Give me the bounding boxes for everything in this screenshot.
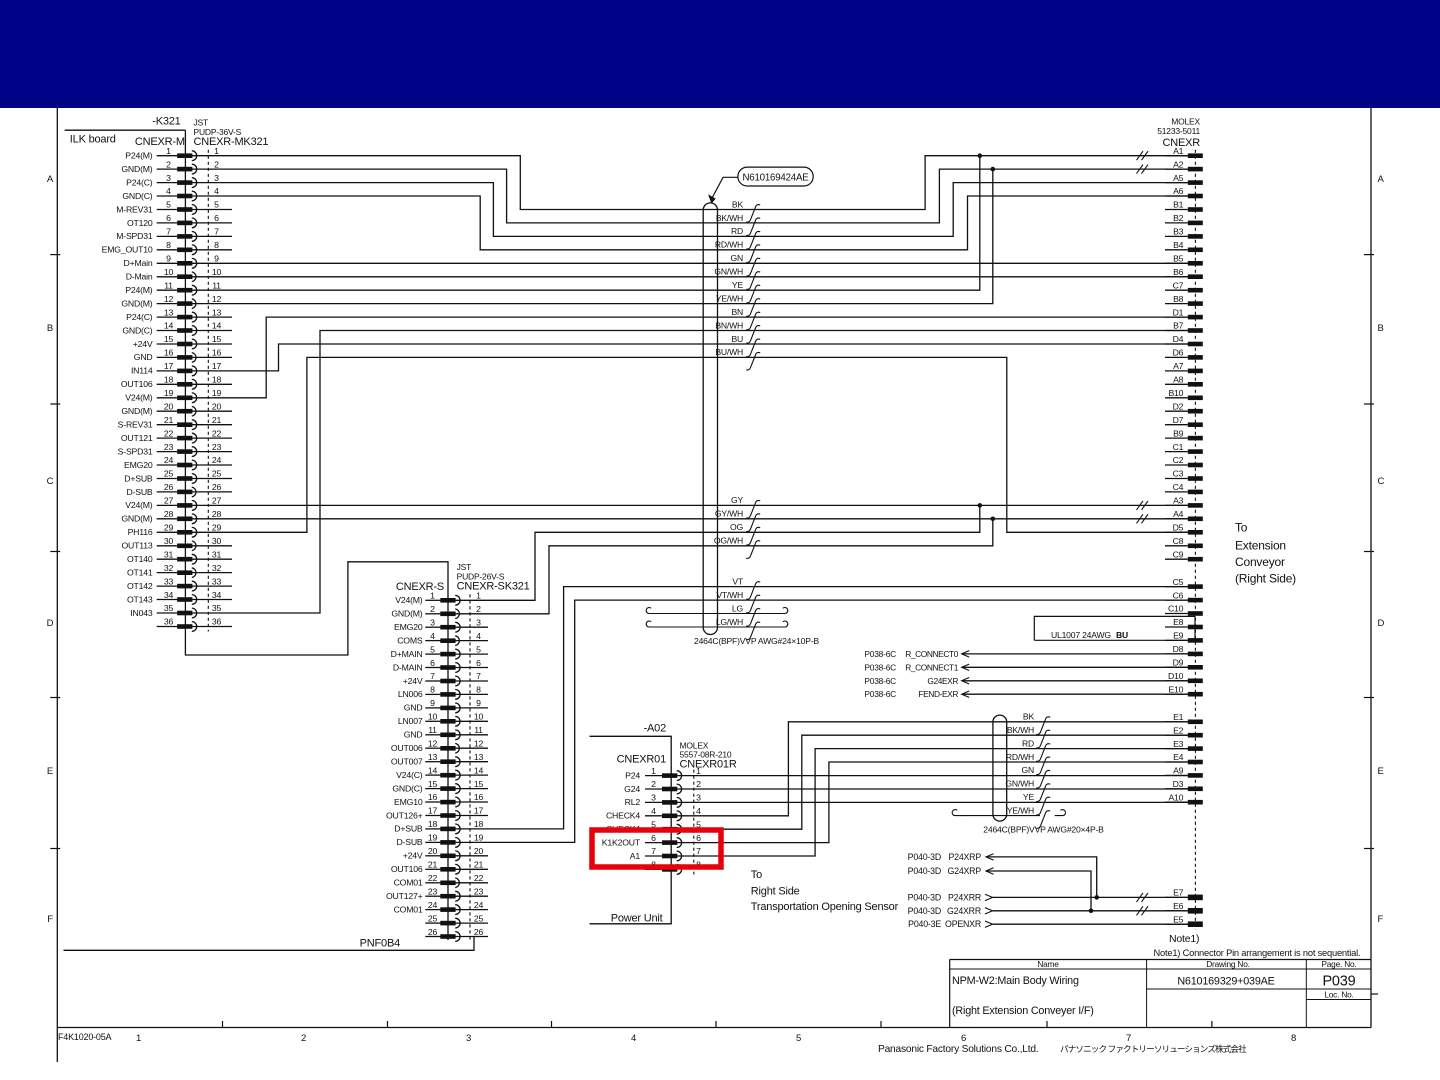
svg-text:Loc. No.: Loc. No. — [1324, 989, 1353, 999]
svg-text:33: 33 — [164, 576, 174, 586]
svg-text:E3: E3 — [1173, 739, 1184, 749]
svg-text:1: 1 — [136, 1033, 141, 1044]
svg-text:EMG20: EMG20 — [124, 460, 153, 470]
svg-text:C5: C5 — [1173, 577, 1184, 587]
svg-text:51233-5011: 51233-5011 — [1157, 126, 1200, 136]
svg-text:C: C — [1378, 476, 1385, 487]
svg-text:E6: E6 — [1173, 901, 1184, 911]
svg-text:6: 6 — [696, 833, 701, 843]
svg-text:OUT006: OUT006 — [391, 743, 423, 753]
svg-text:5: 5 — [476, 644, 481, 654]
svg-text:B8: B8 — [1173, 294, 1184, 304]
svg-text:CNEXR01R: CNEXR01R — [680, 758, 737, 770]
svg-text:B10: B10 — [1168, 388, 1183, 398]
svg-text:7: 7 — [1126, 1033, 1131, 1044]
svg-text:To: To — [751, 869, 762, 881]
svg-text:35: 35 — [212, 603, 222, 613]
svg-text:A2: A2 — [1173, 159, 1184, 169]
svg-text:A4: A4 — [1173, 509, 1184, 519]
svg-text:V24(C): V24(C) — [396, 770, 423, 780]
svg-text:D2: D2 — [1173, 401, 1184, 411]
svg-text:+24V: +24V — [133, 339, 153, 349]
svg-text:F: F — [1378, 914, 1384, 925]
svg-text:Note1): Note1) — [1169, 933, 1199, 945]
svg-text:GND(M): GND(M) — [121, 164, 152, 174]
svg-text:26: 26 — [428, 927, 438, 937]
svg-text:4: 4 — [214, 186, 219, 196]
svg-text:RD/WH: RD/WH — [715, 240, 743, 250]
svg-text:19: 19 — [428, 833, 438, 843]
svg-text:11: 11 — [474, 725, 483, 735]
svg-text:25: 25 — [474, 913, 484, 923]
svg-text:OUT126+: OUT126+ — [386, 810, 423, 820]
svg-text:1: 1 — [430, 591, 435, 601]
svg-text:OUT121: OUT121 — [121, 433, 153, 443]
svg-text:D: D — [47, 618, 54, 629]
svg-text:G24: G24 — [624, 784, 640, 794]
svg-text:22: 22 — [428, 873, 438, 883]
svg-text:A: A — [1378, 174, 1385, 185]
svg-text:C9: C9 — [1173, 549, 1184, 559]
svg-text:R_CONNECT1: R_CONNECT1 — [905, 662, 959, 672]
svg-text:4: 4 — [696, 806, 701, 816]
svg-text:D3: D3 — [1173, 779, 1184, 789]
svg-text:B3: B3 — [1173, 227, 1184, 237]
svg-text:GND: GND — [134, 352, 153, 362]
svg-text:E: E — [1378, 766, 1384, 777]
svg-text:パナソニック ファクトリーソリューションズ株式会社: パナソニック ファクトリーソリューションズ株式会社 — [1060, 1043, 1247, 1054]
svg-text:3: 3 — [476, 617, 481, 627]
svg-text:G24XRP: G24XRP — [947, 866, 981, 876]
svg-text:7: 7 — [166, 227, 171, 237]
svg-text:17: 17 — [212, 361, 222, 371]
svg-text:OT120: OT120 — [127, 218, 153, 228]
svg-text:15: 15 — [212, 334, 222, 344]
svg-text:C4: C4 — [1173, 482, 1184, 492]
svg-text:17: 17 — [164, 361, 174, 371]
svg-text:33: 33 — [212, 576, 222, 586]
svg-text:32: 32 — [212, 563, 222, 573]
svg-text:N610169424AE: N610169424AE — [742, 172, 809, 183]
svg-text:D+SUB: D+SUB — [394, 824, 423, 834]
svg-text:13: 13 — [164, 307, 174, 317]
svg-text:PH116: PH116 — [128, 527, 153, 537]
svg-text:E8: E8 — [1173, 617, 1184, 627]
svg-text:23: 23 — [474, 886, 484, 896]
svg-text:B2: B2 — [1173, 213, 1184, 223]
svg-text:Extension: Extension — [1235, 539, 1286, 553]
svg-text:26: 26 — [212, 482, 222, 492]
svg-text:31: 31 — [212, 549, 222, 559]
svg-text:25: 25 — [428, 913, 438, 923]
svg-text:18: 18 — [474, 819, 484, 829]
svg-text:OT140: OT140 — [127, 554, 153, 564]
svg-text:GY: GY — [731, 495, 743, 505]
svg-text:3: 3 — [430, 617, 435, 627]
svg-text:14: 14 — [474, 765, 484, 775]
svg-text:OUT106: OUT106 — [121, 379, 153, 389]
svg-text:OT143: OT143 — [127, 594, 153, 604]
svg-text:C6: C6 — [1173, 590, 1184, 600]
svg-text:+24V: +24V — [403, 851, 423, 861]
svg-text:2: 2 — [651, 779, 656, 789]
svg-text:8: 8 — [166, 240, 171, 250]
svg-text:CNEXR-S: CNEXR-S — [396, 581, 444, 593]
svg-text:P24: P24 — [625, 770, 640, 780]
svg-text:P24(M): P24(M) — [125, 285, 153, 295]
svg-text:17: 17 — [474, 806, 484, 816]
svg-text:BK: BK — [732, 199, 744, 209]
svg-text:2: 2 — [214, 159, 219, 169]
svg-text:14: 14 — [428, 765, 438, 775]
svg-text:A: A — [47, 174, 54, 185]
svg-text:26: 26 — [164, 482, 174, 492]
svg-text:Name: Name — [1037, 959, 1059, 969]
svg-text:FEND-EXR: FEND-EXR — [918, 689, 958, 699]
svg-text:E7: E7 — [1173, 888, 1184, 898]
svg-text:6: 6 — [961, 1033, 966, 1044]
svg-text:3: 3 — [214, 173, 219, 183]
svg-text:B5: B5 — [1173, 254, 1184, 264]
svg-text:16: 16 — [164, 348, 174, 358]
svg-text:7: 7 — [430, 671, 435, 681]
svg-text:GND(M): GND(M) — [391, 609, 422, 619]
svg-text:Note1) Connector Pin arrangeme: Note1) Connector Pin arrangement is not … — [1154, 948, 1361, 958]
svg-text:A8: A8 — [1173, 375, 1184, 385]
svg-text:5: 5 — [166, 200, 171, 210]
svg-text:C: C — [47, 476, 54, 487]
svg-text:G24EXR: G24EXR — [927, 676, 958, 686]
svg-text:G24XRR: G24XRR — [947, 906, 981, 916]
svg-text:23: 23 — [212, 442, 222, 452]
svg-text:25: 25 — [164, 469, 174, 479]
svg-text:1: 1 — [651, 766, 656, 776]
svg-text:D1: D1 — [1173, 307, 1184, 317]
svg-text:NPM-W2:Main Body Wiring: NPM-W2:Main Body Wiring — [952, 975, 1079, 987]
svg-text:23: 23 — [164, 442, 174, 452]
svg-text:4: 4 — [631, 1033, 636, 1044]
svg-text:B9: B9 — [1173, 428, 1184, 438]
svg-text:P038-6C: P038-6C — [864, 676, 896, 686]
svg-text:D-SUB: D-SUB — [126, 487, 152, 497]
svg-text:18: 18 — [428, 819, 438, 829]
svg-text:27: 27 — [164, 496, 174, 506]
svg-text:+24V: +24V — [403, 676, 423, 686]
svg-text:6: 6 — [430, 658, 435, 668]
svg-text:M-SPD31: M-SPD31 — [116, 231, 153, 241]
svg-text:1: 1 — [696, 766, 701, 776]
svg-text:P040-3D: P040-3D — [908, 906, 941, 916]
svg-text:31: 31 — [164, 549, 174, 559]
svg-text:18: 18 — [212, 375, 222, 385]
svg-text:GND(M): GND(M) — [121, 406, 152, 416]
svg-text:P040-3E: P040-3E — [908, 919, 941, 929]
svg-text:GN/WH: GN/WH — [714, 267, 743, 277]
svg-text:9: 9 — [430, 698, 435, 708]
svg-text:13: 13 — [428, 752, 438, 762]
svg-text:A10: A10 — [1168, 792, 1183, 802]
svg-text:B1: B1 — [1173, 200, 1184, 210]
svg-text:22: 22 — [474, 873, 484, 883]
svg-text:OUT127+: OUT127+ — [386, 891, 423, 901]
svg-text:11: 11 — [164, 280, 173, 290]
svg-text:RD: RD — [1022, 738, 1034, 748]
svg-text:21: 21 — [212, 415, 222, 425]
svg-text:5: 5 — [796, 1033, 801, 1044]
svg-text:2464C(BPF)VVP AWG#24×10P-B: 2464C(BPF)VVP AWG#24×10P-B — [694, 636, 819, 646]
svg-text:D10: D10 — [1168, 671, 1184, 681]
svg-text:12: 12 — [212, 294, 222, 304]
svg-text:P24(C): P24(C) — [126, 177, 153, 187]
svg-text:N610169329+039AE: N610169329+039AE — [1177, 976, 1274, 988]
svg-text:D+Main: D+Main — [124, 258, 153, 268]
svg-text:11: 11 — [212, 280, 221, 290]
svg-text:21: 21 — [474, 860, 484, 870]
svg-text:ILK board: ILK board — [70, 134, 116, 146]
svg-text:GND(M): GND(M) — [121, 514, 152, 524]
svg-text:GN: GN — [1022, 765, 1035, 775]
svg-text:1: 1 — [166, 146, 171, 156]
svg-text:26: 26 — [474, 927, 484, 937]
svg-text:LG: LG — [732, 603, 744, 613]
svg-text:12: 12 — [164, 294, 174, 304]
svg-text:15: 15 — [474, 779, 484, 789]
svg-text:9: 9 — [166, 254, 171, 264]
svg-text:29: 29 — [164, 523, 174, 533]
svg-text:2: 2 — [166, 159, 171, 169]
svg-text:15: 15 — [164, 334, 174, 344]
svg-text:B4: B4 — [1173, 240, 1184, 250]
svg-text:A3: A3 — [1173, 496, 1184, 506]
svg-text:OUT113: OUT113 — [122, 541, 153, 551]
svg-text:15: 15 — [428, 779, 438, 789]
svg-text:S-SPD31: S-SPD31 — [118, 446, 153, 456]
svg-text:2: 2 — [301, 1033, 306, 1044]
svg-text:11: 11 — [428, 725, 437, 735]
svg-text:7: 7 — [476, 671, 481, 681]
svg-text:GND(M): GND(M) — [121, 298, 152, 308]
svg-text:9: 9 — [476, 698, 481, 708]
svg-text:Panasonic Factory Solutions Co: Panasonic Factory Solutions Co.,Ltd. — [878, 1044, 1038, 1055]
svg-text:4: 4 — [430, 631, 435, 641]
svg-text:3: 3 — [651, 793, 656, 803]
svg-text:20: 20 — [212, 401, 222, 411]
svg-text:GN/WH: GN/WH — [1005, 779, 1034, 789]
svg-text:4: 4 — [651, 806, 656, 816]
svg-text:4: 4 — [166, 186, 171, 196]
svg-text:C1: C1 — [1173, 442, 1184, 452]
svg-text:8: 8 — [430, 685, 435, 695]
svg-text:2: 2 — [476, 604, 481, 614]
svg-text:CNEXR01: CNEXR01 — [617, 754, 666, 766]
svg-text:P24(C): P24(C) — [126, 312, 153, 322]
svg-text:COM01: COM01 — [394, 904, 423, 914]
svg-text:OUT007: OUT007 — [391, 757, 423, 767]
svg-text:YE/WH: YE/WH — [1007, 805, 1034, 815]
svg-text:32: 32 — [164, 563, 174, 573]
svg-text:E1: E1 — [1173, 712, 1184, 722]
svg-text:2: 2 — [430, 604, 435, 614]
svg-text:E2: E2 — [1173, 725, 1184, 735]
svg-text:28: 28 — [212, 509, 222, 519]
svg-text:GND: GND — [404, 703, 423, 713]
svg-text:A9: A9 — [1173, 766, 1184, 776]
svg-text:2464C(BPF)VVP AWG#20×4P-B: 2464C(BPF)VVP AWG#20×4P-B — [983, 824, 1104, 834]
svg-text:PNF0B4: PNF0B4 — [360, 938, 400, 950]
svg-text:BK/WH: BK/WH — [716, 213, 743, 223]
svg-text:14: 14 — [164, 321, 174, 331]
svg-text:27: 27 — [212, 496, 222, 506]
svg-text:COMS: COMS — [397, 635, 423, 645]
svg-text:D4: D4 — [1173, 334, 1184, 344]
svg-text:P040-3D: P040-3D — [908, 866, 941, 876]
svg-text:C3: C3 — [1173, 469, 1184, 479]
svg-text:A5: A5 — [1173, 173, 1184, 183]
svg-text:36: 36 — [164, 617, 174, 627]
svg-text:To: To — [1235, 521, 1248, 535]
svg-text:20: 20 — [428, 846, 438, 856]
svg-text:COM01: COM01 — [394, 878, 423, 888]
svg-text:P040-3D: P040-3D — [908, 852, 941, 862]
svg-text:10: 10 — [474, 712, 484, 722]
svg-text:22: 22 — [164, 428, 174, 438]
svg-text:D+MAIN: D+MAIN — [391, 649, 423, 659]
svg-text:E4: E4 — [1173, 752, 1184, 762]
svg-text:CNEXR-MK321: CNEXR-MK321 — [194, 136, 269, 148]
svg-text:Drawing No.: Drawing No. — [1206, 959, 1249, 969]
svg-text:D: D — [1378, 618, 1385, 629]
svg-text:10: 10 — [428, 712, 438, 722]
svg-text:K1K2OUT: K1K2OUT — [602, 837, 641, 847]
svg-text:P040-3D: P040-3D — [908, 892, 941, 902]
svg-text:A6: A6 — [1173, 186, 1184, 196]
svg-text:P038-6C: P038-6C — [864, 662, 896, 672]
svg-text:BN/WH: BN/WH — [715, 320, 743, 330]
svg-text:F4K1020-05A: F4K1020-05A — [58, 1032, 112, 1042]
svg-text:Right Side: Right Side — [751, 886, 800, 898]
svg-text:16: 16 — [428, 792, 438, 802]
svg-text:P24XRP: P24XRP — [948, 852, 981, 862]
svg-text:1: 1 — [476, 591, 481, 601]
svg-text:Transportation Opening Sensor: Transportation Opening Sensor — [751, 901, 899, 913]
svg-text:13: 13 — [212, 307, 222, 317]
svg-text:BK: BK — [1023, 712, 1035, 722]
svg-text:(Right Extension Conveyer I/F): (Right Extension Conveyer I/F) — [952, 1005, 1094, 1017]
svg-text:EMG20: EMG20 — [394, 622, 423, 632]
svg-text:1: 1 — [214, 146, 219, 156]
svg-text:LN006: LN006 — [398, 689, 423, 699]
svg-text:MOLEX: MOLEX — [1171, 117, 1200, 127]
svg-text:8: 8 — [214, 240, 219, 250]
svg-text:IN114: IN114 — [131, 366, 153, 376]
svg-text:20: 20 — [164, 401, 174, 411]
svg-text:D-SUB: D-SUB — [396, 837, 422, 847]
svg-text:GN: GN — [731, 253, 744, 263]
svg-text:2: 2 — [696, 779, 701, 789]
svg-text:C2: C2 — [1173, 455, 1184, 465]
svg-text:BU: BU — [731, 334, 743, 344]
svg-text:BU/WH: BU/WH — [715, 347, 743, 357]
svg-text:GY/WH: GY/WH — [715, 509, 743, 519]
svg-text:12: 12 — [474, 739, 484, 749]
svg-text:V24(M): V24(M) — [125, 500, 153, 510]
svg-text:12: 12 — [428, 739, 438, 749]
svg-text:RD: RD — [731, 226, 743, 236]
svg-text:17: 17 — [428, 806, 438, 816]
svg-text:21: 21 — [164, 415, 174, 425]
svg-text:B7: B7 — [1173, 321, 1184, 331]
svg-text:6: 6 — [166, 213, 171, 223]
svg-text:OUT106: OUT106 — [391, 864, 423, 874]
svg-text:IN043: IN043 — [130, 608, 153, 618]
svg-text:OT142: OT142 — [127, 581, 153, 591]
svg-text:34: 34 — [212, 590, 222, 600]
svg-text:24: 24 — [428, 900, 438, 910]
svg-text:13: 13 — [474, 752, 484, 762]
svg-text:YE: YE — [1023, 792, 1035, 802]
svg-text:8: 8 — [476, 685, 481, 695]
svg-text:D-MAIN: D-MAIN — [393, 662, 423, 672]
svg-text:GND(C): GND(C) — [392, 783, 422, 793]
svg-text:16: 16 — [212, 348, 222, 358]
svg-text:D8: D8 — [1173, 644, 1184, 654]
svg-text:28: 28 — [164, 509, 174, 519]
svg-text:CNEXR-SK321: CNEXR-SK321 — [457, 581, 530, 593]
svg-text:RD/WH: RD/WH — [1006, 752, 1034, 762]
svg-text:V24(M): V24(M) — [125, 393, 153, 403]
svg-text:M-REV31: M-REV31 — [116, 204, 153, 214]
svg-text:Page. No.: Page. No. — [1321, 959, 1356, 969]
svg-text:6: 6 — [651, 833, 656, 843]
svg-text:BK/WH: BK/WH — [1007, 725, 1034, 735]
svg-text:VT: VT — [732, 576, 744, 586]
svg-text:(Right Side): (Right Side) — [1235, 572, 1296, 586]
svg-text:30: 30 — [212, 536, 222, 546]
svg-text:P038-6C: P038-6C — [864, 689, 896, 699]
svg-text:A7: A7 — [1173, 361, 1184, 371]
svg-text:YE: YE — [732, 280, 744, 290]
svg-text:OG: OG — [730, 522, 743, 532]
svg-text:19: 19 — [212, 388, 222, 398]
svg-text:LG/WH: LG/WH — [716, 617, 743, 627]
svg-text:18: 18 — [164, 375, 174, 385]
svg-text:EMG10: EMG10 — [394, 797, 423, 807]
svg-text:24: 24 — [212, 455, 222, 465]
svg-text:R_CONNECT0: R_CONNECT0 — [905, 649, 959, 659]
svg-text:P24(M): P24(M) — [125, 151, 153, 161]
svg-text:B6: B6 — [1173, 267, 1184, 277]
svg-text:C10: C10 — [1168, 604, 1184, 614]
svg-text:P038-6C: P038-6C — [864, 649, 896, 659]
svg-text:D-Main: D-Main — [126, 272, 153, 282]
svg-text:7: 7 — [696, 846, 701, 856]
svg-text:UL1007 24AWG: UL1007 24AWG — [1051, 630, 1111, 640]
svg-text:D5: D5 — [1173, 523, 1184, 533]
svg-text:GND(C): GND(C) — [122, 325, 152, 335]
svg-text:6: 6 — [214, 213, 219, 223]
svg-text:34: 34 — [164, 590, 174, 600]
svg-text:E10: E10 — [1168, 684, 1183, 694]
svg-text:22: 22 — [212, 428, 222, 438]
svg-text:24: 24 — [474, 900, 484, 910]
svg-text:8: 8 — [1291, 1033, 1296, 1044]
svg-text:B: B — [1378, 323, 1384, 334]
svg-text:CHECK4: CHECK4 — [606, 811, 640, 821]
svg-text:D7: D7 — [1173, 415, 1184, 425]
svg-text:16: 16 — [474, 792, 484, 802]
svg-text:OT141: OT141 — [127, 567, 153, 577]
svg-text:23: 23 — [428, 886, 438, 896]
